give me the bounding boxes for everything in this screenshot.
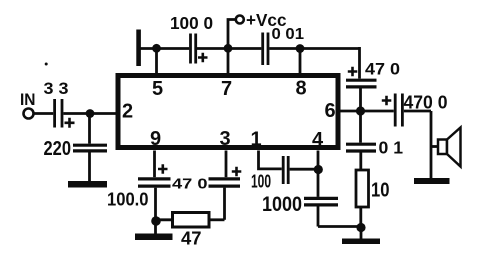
svg-text:7: 7 <box>221 78 232 100</box>
svg-text:220: 220 <box>44 137 72 160</box>
svg-text:6: 6 <box>325 100 336 122</box>
svg-text:47: 47 <box>181 228 202 249</box>
svg-text:3 3: 3 3 <box>44 80 69 98</box>
svg-text:8: 8 <box>296 78 307 100</box>
svg-text:2: 2 <box>122 101 133 123</box>
svg-text:100: 100 <box>251 171 271 192</box>
svg-text:3: 3 <box>220 128 231 150</box>
svg-text:470 0: 470 0 <box>404 93 448 113</box>
svg-text:5: 5 <box>152 78 163 100</box>
svg-text:0 1: 0 1 <box>379 138 404 158</box>
svg-text:4: 4 <box>312 129 324 151</box>
svg-text:1000: 1000 <box>262 193 302 216</box>
svg-text:47 0: 47 0 <box>172 176 208 193</box>
svg-text:100 0: 100 0 <box>170 13 213 33</box>
svg-text:47 0: 47 0 <box>365 61 400 79</box>
svg-text:100.0: 100.0 <box>107 189 149 210</box>
svg-text:0 01: 0 01 <box>272 26 305 43</box>
svg-text:10: 10 <box>371 180 390 202</box>
svg-text:9: 9 <box>150 128 161 150</box>
svg-text:IN: IN <box>20 91 36 109</box>
svg-text:1: 1 <box>251 129 262 151</box>
